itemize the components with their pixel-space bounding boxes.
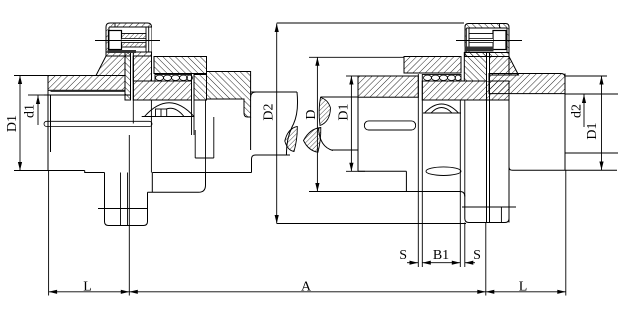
svg-text:d1: d1 [23, 104, 38, 118]
svg-text:L: L [519, 280, 528, 295]
svg-text:B1: B1 [433, 248, 449, 263]
svg-text:S: S [399, 248, 407, 263]
svg-text:D1: D1 [585, 122, 600, 139]
svg-text:D1: D1 [337, 103, 352, 120]
svg-text:A: A [301, 280, 312, 295]
svg-text:D2: D2 [262, 103, 277, 120]
svg-text:S: S [473, 248, 481, 263]
svg-text:D1: D1 [5, 115, 20, 132]
svg-text:d2: d2 [570, 104, 585, 118]
svg-text:L: L [83, 280, 92, 295]
svg-text:D: D [304, 109, 319, 119]
